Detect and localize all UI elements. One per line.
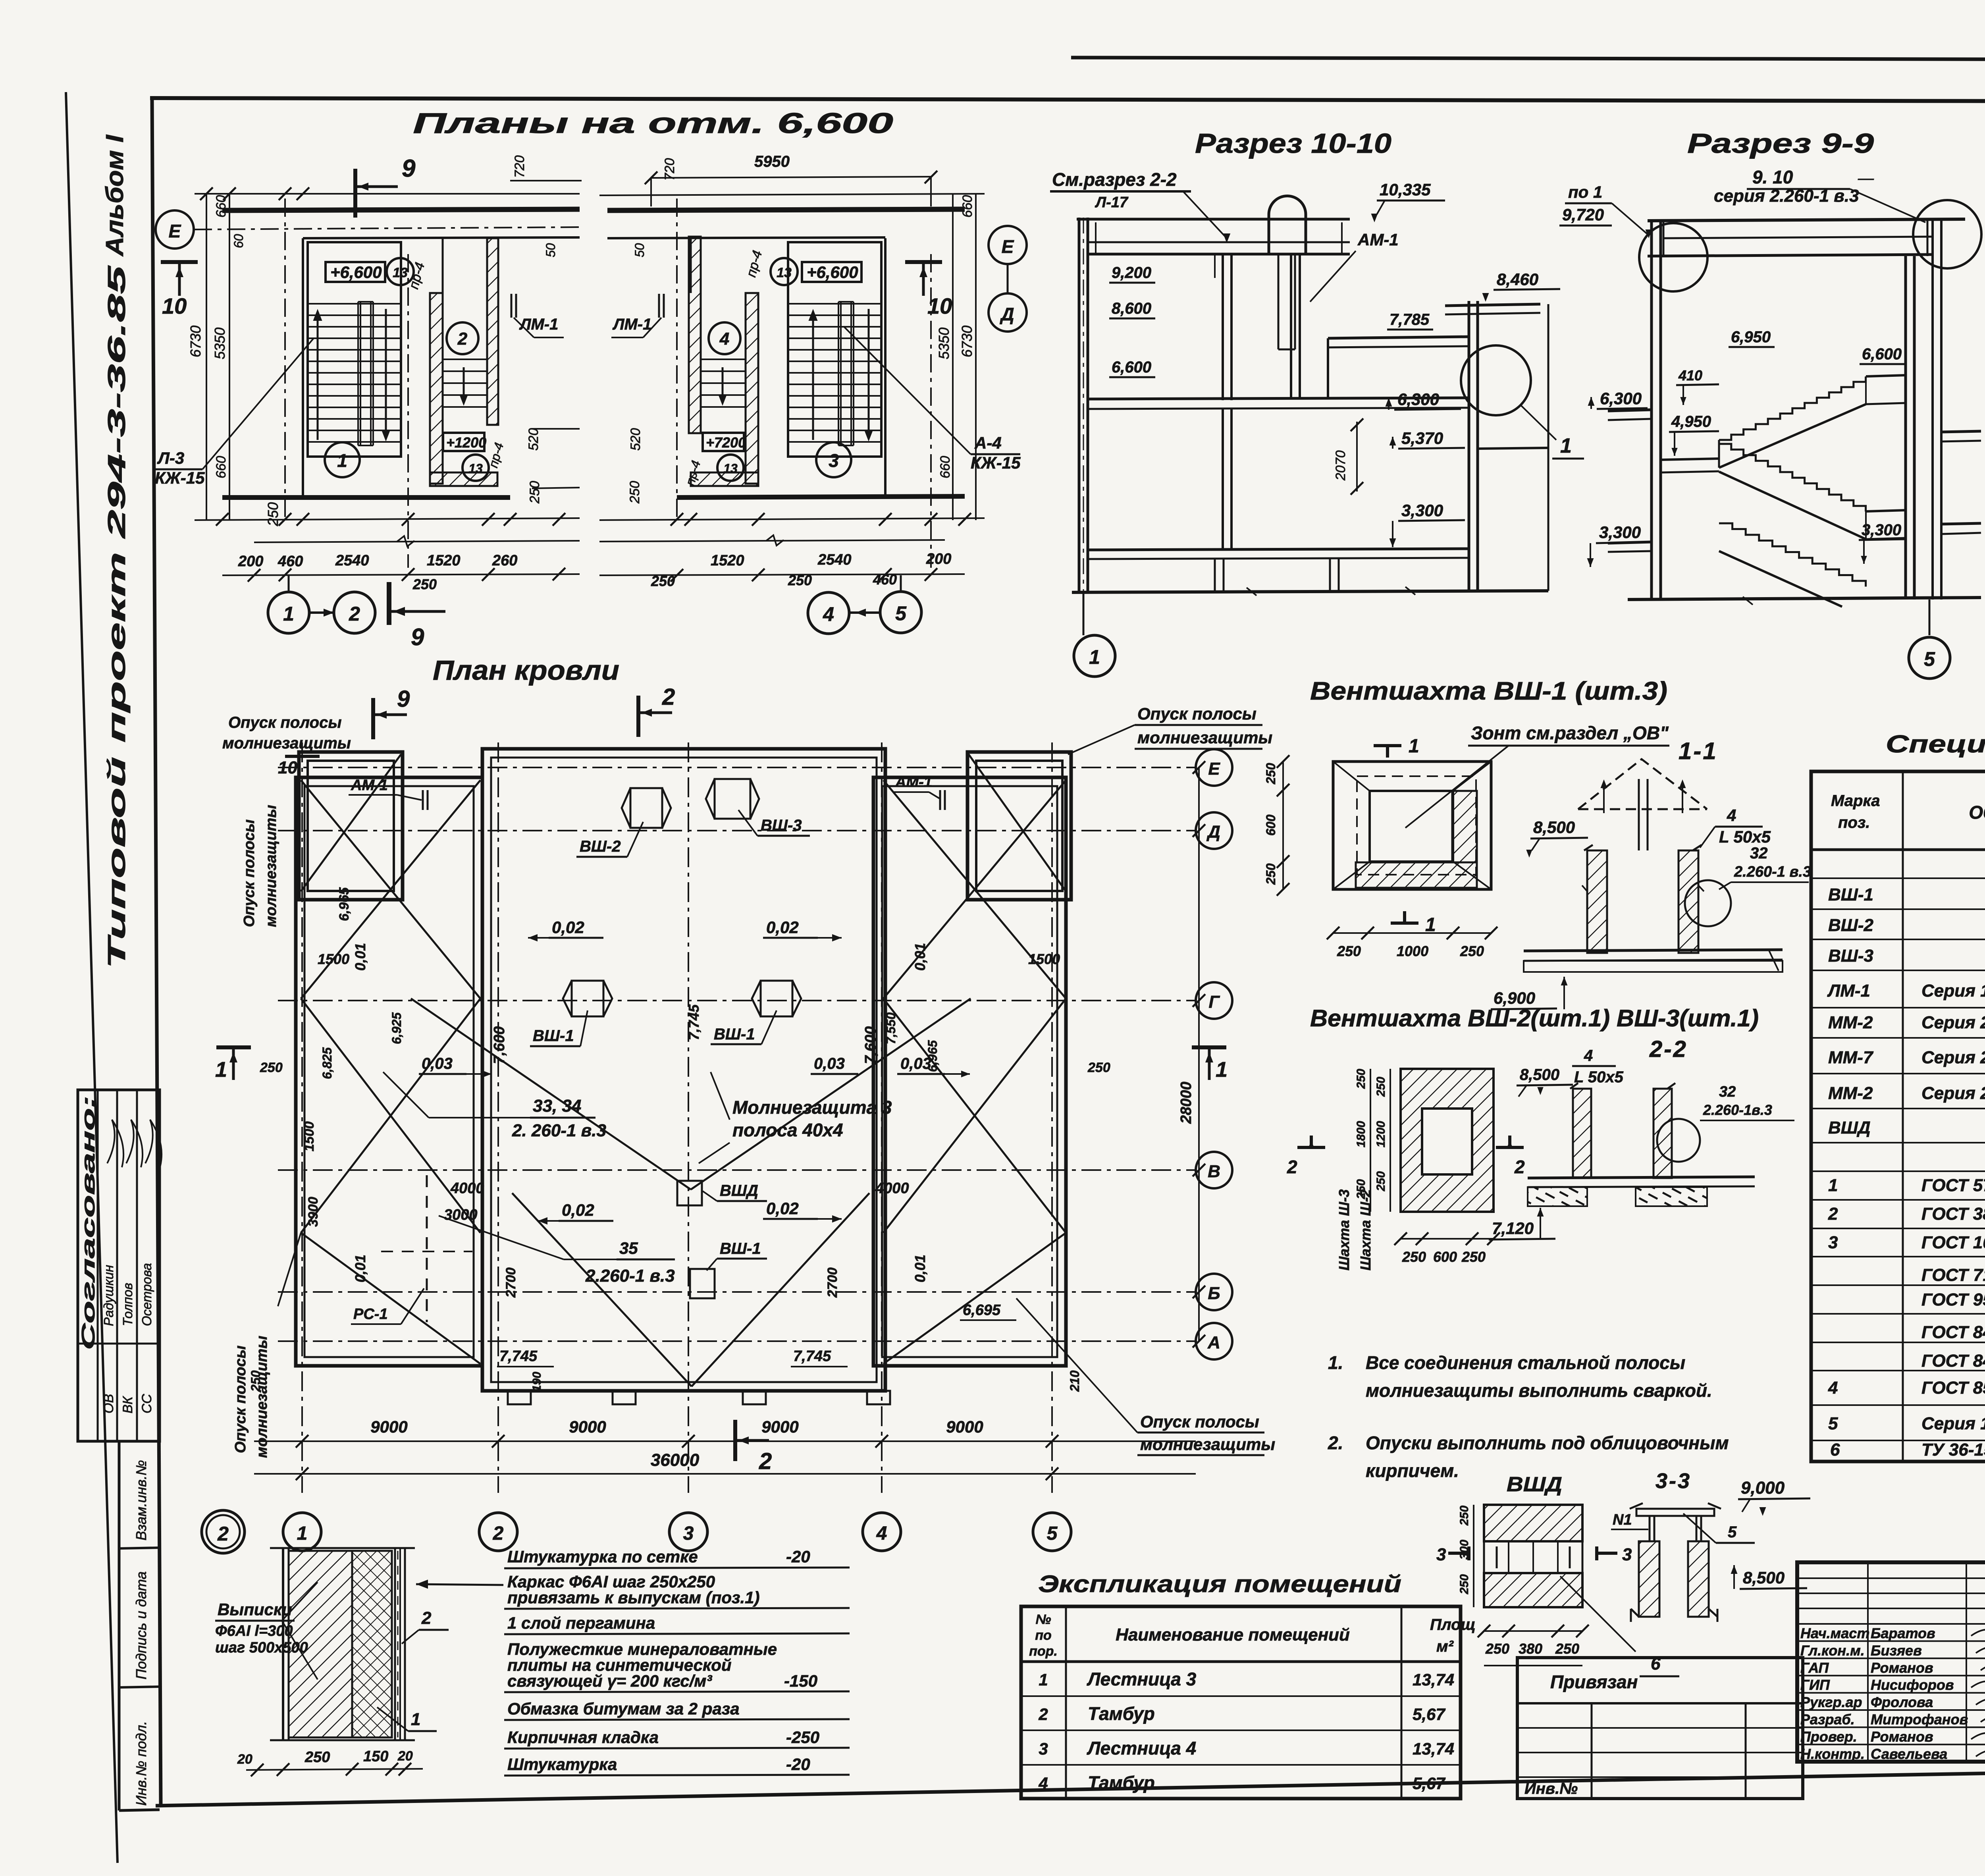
svg-text:0,03: 0,03 xyxy=(422,1055,453,1072)
svg-text:3,300: 3,300 xyxy=(1862,521,1901,539)
svg-text:Осетрова: Осетрова xyxy=(139,1263,154,1326)
svg-text:250: 250 xyxy=(1355,1069,1368,1089)
svg-text:См.разрез 2-2: См.разрез 2-2 xyxy=(1052,169,1177,190)
svg-text:ЛМ-1: ЛМ-1 xyxy=(1827,981,1870,1001)
svg-text:8,500: 8,500 xyxy=(1743,1568,1785,1587)
svg-text:1000: 1000 xyxy=(1397,943,1428,959)
svg-text:250: 250 xyxy=(412,576,437,592)
svg-text:Согласовано:: Согласовано: xyxy=(78,1096,98,1350)
svg-text:1500: 1500 xyxy=(318,951,349,967)
svg-text:250: 250 xyxy=(1485,1641,1509,1657)
svg-text:Подпись и дата: Подпись и дата xyxy=(133,1571,149,1679)
svg-text:-20: -20 xyxy=(786,1547,810,1566)
section 9-9 structure xyxy=(1648,219,1965,221)
svg-text:ГАП: ГАП xyxy=(1800,1660,1829,1676)
svg-text:1800: 1800 xyxy=(1355,1121,1368,1147)
svg-text:Планы на отм. 6,600: Планы на отм. 6,600 xyxy=(413,108,893,139)
svg-text:Романов: Романов xyxy=(1871,1660,1933,1676)
svg-text:ВК: ВК xyxy=(120,1396,135,1413)
svg-text:Нач.маст: Нач.маст xyxy=(1800,1625,1869,1641)
svg-text:13,74: 13,74 xyxy=(1413,1739,1454,1758)
svg-text:серия 2.260-1 в.3: серия 2.260-1 в.3 xyxy=(1714,186,1859,206)
svg-text:ТУ 36-1517-74: ТУ 36-1517-74 xyxy=(1921,1440,1985,1460)
svg-text:660: 660 xyxy=(960,195,975,218)
svg-text:Штукатурка по сетке: Штукатурка по сетке xyxy=(507,1547,698,1566)
svg-text:36000: 36000 xyxy=(651,1450,700,1470)
svg-text:1: 1 xyxy=(1216,1058,1228,1082)
svg-text:1: 1 xyxy=(283,603,294,625)
svg-text:СС: СС xyxy=(139,1394,154,1413)
svg-text:L 50х5: L 50х5 xyxy=(1574,1068,1624,1086)
svg-text:Г: Г xyxy=(1208,992,1220,1012)
svg-text:0,02: 0,02 xyxy=(562,1201,594,1219)
svg-text:2: 2 xyxy=(457,329,468,349)
svg-text:5: 5 xyxy=(1728,1523,1737,1541)
svg-text:ГОСТ 3826-82: ГОСТ 3826-82 xyxy=(1921,1204,1985,1224)
roof grid circles bottom xyxy=(283,1513,321,1551)
svg-text:210: 210 xyxy=(1068,1370,1082,1392)
svg-text:250: 250 xyxy=(1402,1249,1426,1265)
plan 1 dimensions left xyxy=(206,194,207,520)
svg-text:ВШ-1: ВШ-1 xyxy=(533,1027,574,1045)
svg-text:5: 5 xyxy=(1924,648,1935,670)
svg-text:250: 250 xyxy=(1461,1249,1486,1265)
svg-text:10: 10 xyxy=(927,293,952,318)
svg-text:9: 9 xyxy=(411,624,424,650)
svg-text:+1200: +1200 xyxy=(446,434,486,451)
svg-text:молниезащиты: молниезащиты xyxy=(1137,728,1272,747)
svg-text:35: 35 xyxy=(619,1239,638,1257)
svg-text:5: 5 xyxy=(1047,1523,1058,1544)
svg-text:Е: Е xyxy=(169,221,181,241)
svg-text:3: 3 xyxy=(1039,1739,1048,1758)
lightning protection diagonals xyxy=(301,754,401,891)
svg-text:250: 250 xyxy=(249,1370,263,1392)
svg-text:9000: 9000 xyxy=(569,1417,606,1436)
svg-text:ВШ-3: ВШ-3 xyxy=(761,817,802,834)
svg-text:8,500: 8,500 xyxy=(1520,1066,1559,1084)
svg-text:250: 250 xyxy=(1087,1060,1110,1075)
stair plan 1 xyxy=(353,169,357,218)
stair flights section 9-9 xyxy=(1719,376,1866,440)
svg-text:6,965: 6,965 xyxy=(925,1040,940,1072)
svg-text:РС-1: РС-1 xyxy=(353,1306,388,1323)
svg-text:4: 4 xyxy=(719,329,729,349)
svg-text:молниезащиты выполнить сваркой: молниезащиты выполнить сваркой. xyxy=(1366,1380,1712,1401)
svg-text:250: 250 xyxy=(1374,1171,1388,1192)
svg-text:6,950: 6,950 xyxy=(1731,328,1771,346)
svg-text:2: 2 xyxy=(1287,1157,1297,1177)
svg-text:Е: Е xyxy=(1002,236,1014,257)
svg-text:250: 250 xyxy=(1555,1641,1579,1657)
svg-text:Площ: Площ xyxy=(1430,1616,1476,1633)
svg-text:ГОСТ 8486-66: ГОСТ 8486-66 xyxy=(1921,1323,1985,1342)
привязан table xyxy=(1517,1658,1803,1799)
svg-text:9. 10: 9. 10 xyxy=(1752,167,1793,187)
svg-text:250: 250 xyxy=(304,1749,330,1766)
svg-text:Вентшахта ВШ-1 (шт.3): Вентшахта ВШ-1 (шт.3) xyxy=(1310,677,1667,705)
svg-text:7,745: 7,745 xyxy=(793,1348,831,1365)
svg-text:0,01: 0,01 xyxy=(912,1255,928,1282)
svg-text:1: 1 xyxy=(1039,1670,1048,1689)
svg-text:Молниезащита 3: Молниезащита 3 xyxy=(732,1097,892,1118)
svg-text:2.260-1в.3: 2.260-1в.3 xyxy=(1703,1102,1772,1118)
svg-text:5: 5 xyxy=(1828,1414,1838,1433)
svg-text:ВШД: ВШД xyxy=(1507,1473,1562,1496)
svg-text:Зонт см.раздел „ОВ": Зонт см.раздел „ОВ" xyxy=(1471,723,1669,743)
svg-text:4,950: 4,950 xyxy=(1671,413,1711,430)
svg-text:3: 3 xyxy=(1828,1233,1838,1252)
svg-text:поз.: поз. xyxy=(1838,814,1870,831)
svg-text:Серия 2.260-1 в.3: Серия 2.260-1 в.3 xyxy=(1921,1048,1985,1067)
svg-text:50: 50 xyxy=(632,243,647,257)
svg-text:молниезащиты: молниезащиты xyxy=(222,735,351,752)
svg-text:6,965: 6,965 xyxy=(337,887,352,921)
svg-text:Рукгр.ар: Рукгр.ар xyxy=(1800,1694,1862,1710)
svg-text:АМ-1: АМ-1 xyxy=(895,774,932,791)
svg-text:50: 50 xyxy=(543,243,558,257)
svg-text:ВШ-3: ВШ-3 xyxy=(1828,946,1873,966)
svg-text:0,02: 0,02 xyxy=(766,1199,799,1218)
svg-text:190: 190 xyxy=(530,1372,543,1392)
svg-text:Шахта Ш-2: Шахта Ш-2 xyxy=(1357,1189,1374,1271)
svg-text:-150: -150 xyxy=(784,1672,817,1690)
svg-text:2: 2 xyxy=(349,603,360,625)
svg-text:ГОСТ 8509-72 *: ГОСТ 8509-72 * xyxy=(1921,1378,1985,1398)
svg-text:ЛМ-1: ЛМ-1 xyxy=(612,316,651,333)
svg-text:7,785: 7,785 xyxy=(1389,311,1430,328)
svg-text:по 1: по 1 xyxy=(1568,183,1602,201)
sheet frame xyxy=(1071,58,1985,60)
svg-text:связующей γ= 200 кгс/м³: связующей γ= 200 кгс/м³ xyxy=(507,1672,712,1690)
svg-text:Фролова: Фролова xyxy=(1871,1694,1933,1710)
svg-text:2. 260-1 в.3: 2. 260-1 в.3 xyxy=(512,1121,606,1140)
svg-text:250: 250 xyxy=(1460,943,1484,959)
svg-text:250: 250 xyxy=(260,1060,283,1075)
svg-text:КЖ-15: КЖ-15 xyxy=(971,453,1021,472)
section 10-10 structure xyxy=(1078,218,1081,594)
svg-text:2-2: 2-2 xyxy=(1649,1036,1688,1062)
svg-text:L 50х5: L 50х5 xyxy=(1719,827,1771,846)
svg-text:Разрез 9-9: Разрез 9-9 xyxy=(1687,128,1874,159)
ВШ-1 plan xyxy=(1333,762,1491,889)
svg-text:Л-3: Л-3 xyxy=(157,449,184,467)
svg-text:2: 2 xyxy=(493,1523,504,1544)
svg-text:1: 1 xyxy=(337,450,347,471)
svg-text:1: 1 xyxy=(1560,434,1572,457)
svg-text:250: 250 xyxy=(788,572,812,588)
svg-text:Н.контр.: Н.контр. xyxy=(1800,1746,1865,1762)
svg-text:ВШ-2: ВШ-2 xyxy=(580,838,621,855)
grid circle E xyxy=(156,210,194,249)
svg-text:ВШД: ВШД xyxy=(720,1182,758,1199)
svg-text:1 слой пергамина: 1 слой пергамина xyxy=(507,1614,655,1632)
svg-text:4: 4 xyxy=(1727,806,1736,825)
svg-text:2070: 2070 xyxy=(1333,450,1348,481)
svg-text:молниезащиты: молниезащиты xyxy=(1140,1435,1275,1454)
svg-text:260: 260 xyxy=(492,552,517,569)
svg-text:600: 600 xyxy=(1433,1249,1457,1265)
svg-text:250: 250 xyxy=(1374,1077,1388,1097)
svg-text:Опуск полосы: Опуск полосы xyxy=(232,1346,249,1453)
svg-text:Взам.инв.№: Взам.инв.№ xyxy=(133,1460,149,1541)
svg-text:по: по xyxy=(1035,1628,1052,1643)
svg-text:9: 9 xyxy=(397,686,410,712)
stair treads xyxy=(309,303,400,305)
svg-text:5,67: 5,67 xyxy=(1413,1705,1445,1724)
svg-text:250: 250 xyxy=(265,502,281,526)
svg-text:8,600: 8,600 xyxy=(1112,300,1151,317)
svg-text:4: 4 xyxy=(823,603,834,625)
svg-text:0,01: 0,01 xyxy=(352,1255,368,1282)
svg-text:0,02: 0,02 xyxy=(552,918,584,937)
svg-text:Серия 1.243.1-4: Серия 1.243.1-4 xyxy=(1921,1414,1985,1433)
svg-text:Тамбур: Тамбур xyxy=(1088,1703,1155,1724)
svg-text:13: 13 xyxy=(393,265,408,280)
svg-text:1: 1 xyxy=(411,1710,420,1729)
svg-text:Серия 2.260-1 в.3: Серия 2.260-1 в.3 xyxy=(1921,1084,1985,1103)
svg-text:2540: 2540 xyxy=(335,552,369,569)
svg-text:1: 1 xyxy=(1409,736,1419,757)
svg-text:60: 60 xyxy=(231,234,246,248)
svg-text:2.260-1 в.3: 2.260-1 в.3 xyxy=(585,1266,675,1286)
svg-text:Все соединения стальной полосы: Все соединения стальной полосы xyxy=(1366,1352,1685,1373)
svg-text:Нисифоров: Нисифоров xyxy=(1871,1677,1954,1693)
svg-text:7,600: 7,600 xyxy=(491,1026,508,1064)
svg-text:13: 13 xyxy=(468,461,483,476)
svg-text:6,825: 6,825 xyxy=(320,1047,334,1079)
svg-text:4: 4 xyxy=(1828,1378,1838,1398)
svg-text:200: 200 xyxy=(926,551,951,567)
svg-text:3,300: 3,300 xyxy=(1599,523,1641,542)
svg-text:Бизяев: Бизяев xyxy=(1871,1642,1922,1658)
svg-text:1: 1 xyxy=(215,1058,227,1082)
svg-text:460: 460 xyxy=(873,571,897,588)
svg-text:250: 250 xyxy=(627,481,642,504)
svg-text:Опуск полосы: Опуск полосы xyxy=(1137,704,1257,723)
экспликация table xyxy=(1021,1606,1461,1799)
bubble 2 left xyxy=(202,1510,245,1553)
svg-text:33, 34: 33, 34 xyxy=(533,1096,581,1116)
svg-text:Серия 2.236-2 в.1: Серия 2.236-2 в.1 xyxy=(1921,1013,1985,1032)
svg-text:5,67: 5,67 xyxy=(1413,1774,1445,1793)
svg-text:1: 1 xyxy=(297,1523,308,1544)
svg-text:13: 13 xyxy=(723,461,738,476)
svg-text:6730: 6730 xyxy=(187,326,204,357)
svg-text:молниезащиты: молниезащиты xyxy=(254,1336,270,1458)
svg-text:5350: 5350 xyxy=(212,328,228,359)
svg-text:4000: 4000 xyxy=(875,1180,909,1197)
hatched walls plan 1 xyxy=(430,293,443,484)
ВШ-1 section 1-1 xyxy=(1578,759,1707,809)
svg-text:2: 2 xyxy=(1038,1705,1048,1724)
svg-text:2.260-1 в.3: 2.260-1 в.3 xyxy=(1734,864,1811,880)
svg-text:250: 250 xyxy=(527,481,542,504)
svg-text:0,01: 0,01 xyxy=(912,943,928,971)
svg-text:13: 13 xyxy=(777,265,792,280)
roof section marks xyxy=(371,698,375,739)
svg-text:Разрез 10-10: Разрез 10-10 xyxy=(1195,128,1391,159)
svg-text:Вентшахта ВШ-2(шт.1) ВШ-3(шт.: Вентшахта ВШ-2(шт.1) ВШ-3(шт.1) xyxy=(1310,1005,1759,1032)
svg-text:2: 2 xyxy=(217,1523,229,1545)
svg-text:привязать к выпускам (поз.1): привязать к выпускам (поз.1) xyxy=(507,1588,759,1607)
svg-text:Обозначение: Обозначение xyxy=(1969,802,1985,823)
svg-text:3900: 3900 xyxy=(306,1197,321,1227)
roof grid circles right xyxy=(1196,749,1232,786)
svg-text:32: 32 xyxy=(1719,1084,1736,1100)
svg-text:600: 600 xyxy=(1264,814,1278,836)
svg-text:Л-17: Л-17 xyxy=(1095,194,1129,211)
svg-text:ГОСТ 103-76: ГОСТ 103-76 xyxy=(1921,1233,1985,1252)
svg-text:Кирпичная кладка: Кирпичная кладка xyxy=(507,1728,659,1747)
stair plan 1 walls xyxy=(222,209,580,210)
svg-text:4: 4 xyxy=(1038,1774,1048,1793)
svg-text:ГОСТ 7118-78: ГОСТ 7118-78 xyxy=(1921,1265,1985,1285)
svg-text:250: 250 xyxy=(1458,1506,1471,1526)
svg-text:1: 1 xyxy=(1089,646,1100,668)
svg-text:660: 660 xyxy=(214,195,229,218)
svg-text:1200: 1200 xyxy=(1374,1121,1388,1147)
svg-text:Ф6АI l=300: Ф6АI l=300 xyxy=(215,1623,293,1639)
svg-text:ЛМ-1: ЛМ-1 xyxy=(519,316,558,333)
svg-text:9,720: 9,720 xyxy=(1562,205,1604,224)
svg-text:+6,600: +6,600 xyxy=(330,263,382,281)
svg-text:ВШ-1: ВШ-1 xyxy=(714,1026,755,1043)
svg-text:20: 20 xyxy=(397,1749,413,1764)
stamp table Согласовано xyxy=(78,1090,160,1441)
svg-text:Опуски выполнить под облицовоч: Опуски выполнить под облицовочным xyxy=(1366,1433,1729,1453)
svg-text:2: 2 xyxy=(1514,1157,1525,1177)
roof outline xyxy=(299,752,403,900)
svg-text:Провер.: Провер. xyxy=(1800,1728,1857,1745)
svg-text:Шахта Ш-3: Шахта Ш-3 xyxy=(1336,1189,1352,1271)
spec table xyxy=(1811,771,1985,1461)
svg-text:Е: Е xyxy=(1208,759,1220,779)
svg-text:пор.: пор. xyxy=(1029,1644,1058,1659)
svg-text:200: 200 xyxy=(238,553,263,570)
svg-text:6730: 6730 xyxy=(959,326,975,357)
ВШД plan xyxy=(1484,1505,1582,1541)
svg-text:1-1: 1-1 xyxy=(1679,738,1718,764)
svg-text:250: 250 xyxy=(651,573,675,589)
svg-text:Опуск полосы: Опуск полосы xyxy=(1140,1412,1259,1431)
margin cells xyxy=(118,1441,121,1810)
svg-text:8,460: 8,460 xyxy=(1497,270,1538,289)
svg-text:250: 250 xyxy=(1337,943,1361,959)
svg-text:10: 10 xyxy=(162,293,187,318)
svg-text:1.: 1. xyxy=(1328,1352,1343,1373)
svg-text:300: 300 xyxy=(1458,1540,1471,1560)
svg-text:10,335: 10,335 xyxy=(1380,180,1431,199)
svg-text:1520: 1520 xyxy=(427,552,461,569)
svg-text:В: В xyxy=(1208,1162,1220,1181)
svg-text:380: 380 xyxy=(1519,1641,1542,1657)
level +6,600 xyxy=(326,262,385,282)
svg-text:9,000: 9,000 xyxy=(1741,1478,1785,1498)
svg-text:3-3: 3-3 xyxy=(1655,1469,1691,1493)
svg-text:2700: 2700 xyxy=(503,1267,518,1298)
svg-text:ММ-7: ММ-7 xyxy=(1828,1048,1874,1067)
svg-text:150: 150 xyxy=(363,1748,388,1765)
svg-text:520: 520 xyxy=(628,428,643,451)
svg-text:ГИП: ГИП xyxy=(1800,1677,1830,1693)
svg-text:2: 2 xyxy=(759,1448,772,1474)
svg-text:3000: 3000 xyxy=(444,1207,478,1223)
svg-text:10: 10 xyxy=(278,758,297,777)
svg-text:720: 720 xyxy=(512,155,527,178)
svg-text:Митрофанов: Митрофанов xyxy=(1871,1711,1968,1728)
svg-text:660: 660 xyxy=(938,456,953,478)
svg-text:2: 2 xyxy=(1828,1204,1838,1224)
svg-text:0,02: 0,02 xyxy=(766,918,799,937)
ВШ-2 plan xyxy=(1401,1069,1494,1212)
svg-text:7,120: 7,120 xyxy=(1492,1219,1534,1238)
svg-text:20: 20 xyxy=(237,1752,252,1767)
svg-text:Экспликация помещений: Экспликация помещений xyxy=(1038,1571,1401,1597)
svg-text:7,745: 7,745 xyxy=(499,1348,538,1365)
svg-text:5950: 5950 xyxy=(754,153,790,170)
svg-text:6,300: 6,300 xyxy=(1600,389,1642,408)
svg-text:м²: м² xyxy=(1436,1638,1454,1655)
svg-text:28000: 28000 xyxy=(1178,1082,1195,1124)
svg-text:полоса 40х4: полоса 40х4 xyxy=(732,1120,843,1140)
svg-text:Опуск полосы: Опуск полосы xyxy=(228,714,342,731)
svg-text:2.: 2. xyxy=(1328,1433,1343,1453)
svg-text:9000: 9000 xyxy=(761,1417,798,1436)
svg-text:7,600: 7,600 xyxy=(862,1026,879,1064)
svg-text:6,695: 6,695 xyxy=(963,1302,1001,1319)
svg-text:ВШ-2: ВШ-2 xyxy=(1828,916,1874,935)
svg-text:Савельева: Савельева xyxy=(1871,1746,1947,1762)
svg-text:N1: N1 xyxy=(1613,1512,1632,1528)
svg-text:ОВ: ОВ xyxy=(101,1394,116,1413)
svg-text:0,03: 0,03 xyxy=(814,1055,845,1072)
svg-text:4: 4 xyxy=(876,1523,887,1544)
svg-text:Марка: Марка xyxy=(1831,792,1880,810)
svg-text:2540: 2540 xyxy=(817,551,852,568)
svg-text:Романов: Романов xyxy=(1871,1728,1933,1745)
svg-text:Лестница 4: Лестница 4 xyxy=(1087,1738,1196,1758)
svg-text:250: 250 xyxy=(1264,763,1278,785)
svg-text:ВШ-1: ВШ-1 xyxy=(720,1240,761,1257)
svg-text:ВШ-1: ВШ-1 xyxy=(1828,885,1873,904)
detail callout 1 xyxy=(1461,345,1531,415)
svg-text:250: 250 xyxy=(1264,863,1278,885)
svg-text:КЖ-15: КЖ-15 xyxy=(155,469,205,487)
svg-text:ГОСТ 5781-82: ГОСТ 5781-82 xyxy=(1921,1176,1985,1195)
svg-text:+7200: +7200 xyxy=(706,434,746,451)
svg-text:6,600: 6,600 xyxy=(1112,359,1151,376)
svg-text:0,01: 0,01 xyxy=(352,943,368,971)
svg-text:Наименование помещений: Наименование помещений xyxy=(1116,1625,1350,1645)
ВШД section 3-3 xyxy=(1636,1509,1714,1516)
svg-text:6,900: 6,900 xyxy=(1494,989,1535,1007)
svg-text:№: № xyxy=(1036,1612,1051,1627)
svg-text:Б: Б xyxy=(1208,1284,1220,1303)
svg-text:1500: 1500 xyxy=(1028,951,1060,967)
vent shafts on roof xyxy=(622,788,671,828)
svg-text:+6,600: +6,600 xyxy=(807,263,858,281)
svg-text:3: 3 xyxy=(829,450,839,471)
svg-text:Спецификация элементов кровл: Спецификация элементов кровли xyxy=(1886,731,1985,758)
svg-text:5: 5 xyxy=(895,602,907,625)
svg-text:9,200: 9,200 xyxy=(1112,264,1151,281)
svg-text:Привязан: Привязан xyxy=(1550,1672,1638,1692)
svg-text:Баратов: Баратов xyxy=(1871,1625,1935,1641)
title block xyxy=(1797,1562,1985,1762)
svg-text:9000: 9000 xyxy=(370,1417,407,1436)
svg-text:Опуск полосы: Опуск полосы xyxy=(241,819,258,927)
